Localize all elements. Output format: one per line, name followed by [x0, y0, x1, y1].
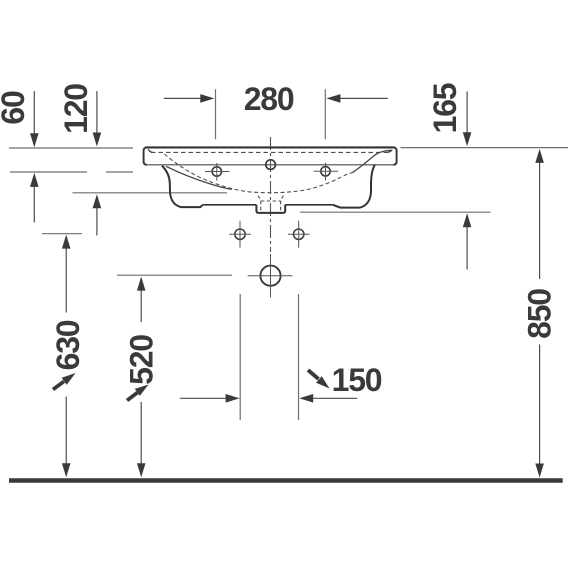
svg-text:150: 150: [332, 362, 382, 398]
svg-text:120: 120: [58, 84, 94, 134]
svg-text:165: 165: [427, 83, 463, 133]
svg-text:630: 630: [50, 320, 86, 370]
svg-text:520: 520: [123, 335, 159, 385]
svg-text:280: 280: [244, 81, 294, 117]
svg-text:60: 60: [0, 91, 31, 125]
svg-text:850: 850: [521, 289, 557, 339]
